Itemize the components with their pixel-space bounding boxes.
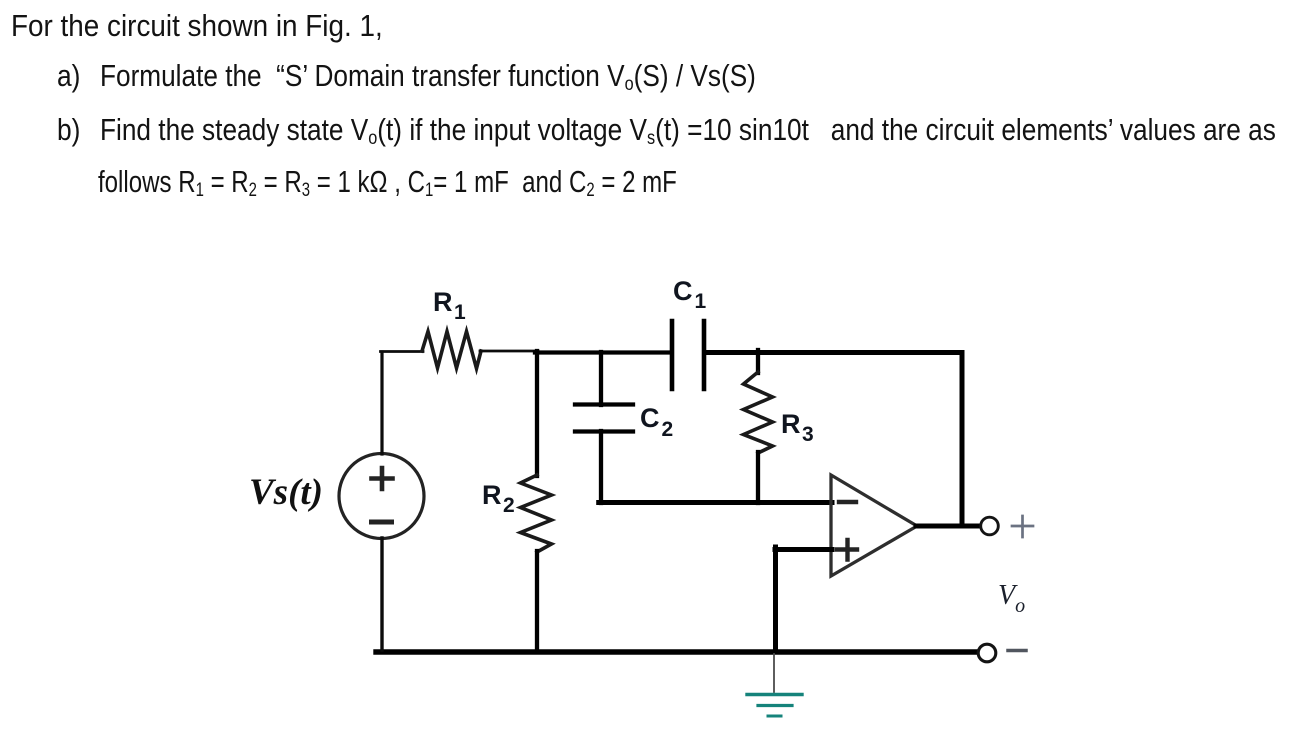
wire top rail thick (node to C1 left plate) — [535, 350, 671, 354]
wire source top to top rail — [380, 352, 383, 454]
label + output polarity — [1012, 516, 1033, 537]
resistor R1 — [422, 332, 481, 369]
wire source bottom to ground rail — [380, 538, 383, 650]
resistor R2 — [521, 475, 552, 552]
wire bottom ground rail — [376, 649, 978, 654]
wire C2 bottom stub — [599, 431, 603, 503]
svg-text:Vo: Vo — [998, 580, 1025, 617]
svg-text:R3: R3 — [781, 409, 814, 446]
wire R3 bottom stub — [756, 452, 760, 503]
wire R1 to node junction — [480, 350, 538, 353]
capacitor C2 — [575, 405, 633, 432]
wire op-amp output — [916, 524, 980, 529]
item a) marker — [57, 58, 80, 94]
wire non-inverting input — [775, 547, 832, 552]
capacitor C1 — [672, 321, 704, 389]
svg-text:R2: R2 — [482, 480, 515, 517]
wire C1 right plate to top-right corner and down to output — [706, 353, 962, 525]
item b) marker — [57, 112, 80, 148]
svg-text:C2: C2 — [640, 403, 673, 441]
ground — [747, 654, 802, 716]
svg-text:R1: R1 — [433, 287, 466, 324]
wire top-left horizontal — [381, 350, 424, 353]
item a) text — [100, 58, 756, 94]
wire inverting-input rail — [599, 500, 832, 505]
wire non-inverting input down to ground rail — [773, 547, 778, 652]
wire C2 top stub — [599, 352, 603, 405]
item b) continuation text — [98, 164, 677, 200]
output terminal - (circle) — [978, 644, 996, 662]
problem statement line 1 — [11, 8, 383, 44]
item b) text — [100, 112, 1276, 148]
wire R2 branch vertical top — [535, 351, 539, 476]
op-amp U1 — [831, 475, 917, 576]
label - output polarity — [1008, 649, 1026, 653]
svg-text:Vs(t): Vs(t) — [249, 472, 323, 513]
wire R3 top stub — [756, 350, 760, 373]
svg-text:C1: C1 — [673, 276, 707, 313]
wire R2 bottom vertical — [535, 551, 539, 652]
voltage source Vs(t) — [339, 454, 424, 539]
resistor R3 — [744, 372, 773, 453]
output terminal + (circle) — [981, 517, 999, 535]
